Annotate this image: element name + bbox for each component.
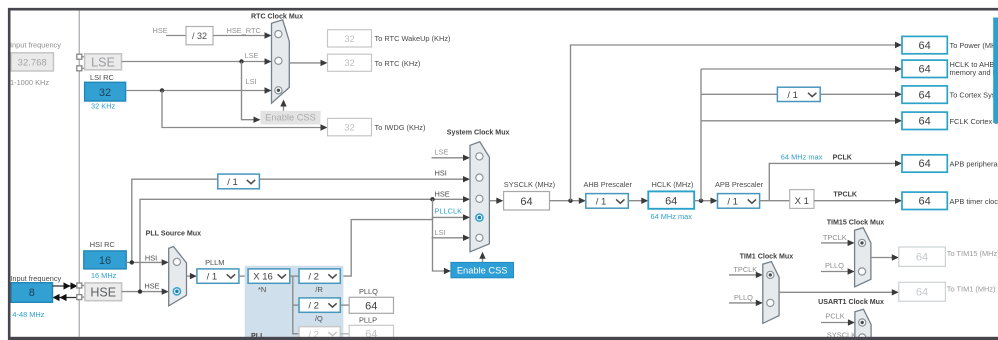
svg-text:/R: /R	[315, 285, 322, 294]
wire FCLK output	[701, 118, 902, 124]
wire LSE stub to system mux	[432, 155, 471, 161]
wire AHB to HCLK	[628, 198, 648, 204]
svg-text:PLLCLK: PLLCLK	[435, 207, 463, 216]
system clock mux shape	[470, 142, 489, 252]
sysmux radio HSI	[476, 174, 483, 181]
wire sysmux output to SYSCLK	[489, 198, 503, 204]
USART1 clock mux shape	[855, 309, 871, 340]
svg-text:PLL Source Mux: PLL Source Mux	[146, 229, 202, 237]
LSE input frequency box 32.768	[11, 53, 54, 71]
svg-text:64 MHz max: 64 MHz max	[651, 212, 693, 221]
label PLL	[251, 332, 265, 340]
wire SYSCLK branch to To Power	[571, 42, 903, 201]
svg-text:16: 16	[99, 255, 111, 267]
label To TIM15 (MHz)	[947, 249, 998, 258]
label SYSCLK (MHz)	[504, 180, 555, 189]
To IWDG box	[328, 118, 372, 135]
svg-text:System Clock Mux: System Clock Mux	[447, 129, 510, 137]
svg-text:Input frequency: Input frequency	[10, 274, 61, 283]
To TIM15 output box	[899, 247, 946, 266]
svg-text:PLLQ: PLLQ	[734, 293, 753, 302]
sysmux radio LSE	[476, 153, 483, 160]
wire LSI stub to system mux	[432, 235, 471, 241]
svg-text:/ 2: / 2	[308, 272, 319, 283]
label To RTC WakeUp (KHz)	[375, 34, 451, 43]
label PLLQ (tim15 stub)	[825, 261, 844, 270]
frame bottom edge	[8, 337, 998, 340]
wire TPCLK into TIM15 mux	[821, 240, 855, 246]
label /R	[315, 285, 322, 294]
svg-text:PLLQ: PLLQ	[359, 287, 378, 296]
PLL block background	[245, 266, 344, 340]
label PLLQ (tim1 stub)	[734, 293, 753, 302]
svg-text:PLLM: PLLM	[205, 258, 224, 267]
svg-text:LSI: LSI	[246, 77, 257, 86]
To Cortex output box	[902, 86, 947, 103]
svg-text:HSI: HSI	[145, 254, 157, 263]
label HCLK (MHz)	[652, 180, 694, 189]
label HSI RC	[90, 240, 116, 249]
title System Clock Mux	[447, 129, 510, 137]
svg-text:LSI: LSI	[435, 228, 446, 237]
wire HCLK to AHB bus output	[701, 66, 902, 72]
svg-text:To Power (MHz): To Power (MHz)	[950, 41, 998, 50]
svg-text:APB peripheral clocks (MHz): APB peripheral clocks (MHz)	[950, 160, 998, 169]
wire SYSCLK to AHB prescaler	[550, 198, 586, 204]
svg-text:64: 64	[365, 300, 377, 312]
svg-text:64: 64	[918, 89, 930, 101]
svg-text:/ 2: / 2	[308, 301, 319, 312]
HSI divider dropdown /1	[218, 174, 260, 189]
To Power output box	[902, 36, 947, 53]
scrollbar thumb right	[993, 18, 998, 124]
svg-text:Input frequency: Input frequency	[10, 41, 61, 50]
label TPCLK	[833, 190, 858, 198]
wire N output bus down to Q and P	[293, 276, 299, 334]
junction HSE to css	[430, 197, 434, 201]
label To Cortex System timer	[950, 91, 998, 100]
LSI RC box 32	[85, 82, 126, 101]
svg-text:TIM15 Clock Mux: TIM15 Clock Mux	[827, 218, 885, 226]
title TIM15 Clock Mux	[827, 218, 885, 226]
svg-text:/ 1: / 1	[596, 196, 607, 207]
To TIM1 output box	[899, 282, 946, 301]
wire PCLK riser	[769, 160, 902, 201]
svg-text:HSE: HSE	[435, 190, 450, 199]
sysmux radio HSE	[476, 195, 483, 202]
title USART1 Clock Mux	[818, 298, 884, 306]
label 64 MHz max (pclk)	[781, 152, 823, 161]
wire HSI rail vertical	[132, 176, 470, 262]
svg-text:APB timer clocks (MHz): APB timer clocks (MHz)	[950, 197, 998, 206]
RTC mux radio LSE	[275, 57, 282, 64]
wire PLLQ into TIM1 mux	[729, 300, 763, 306]
svg-text:LSE: LSE	[245, 51, 259, 60]
wire HSI RC to PLL mux	[126, 259, 169, 265]
junction HSE branch	[138, 289, 142, 293]
svg-text:TPCLK: TPCLK	[823, 233, 847, 242]
HSE input frequency box 8	[11, 283, 52, 303]
X1 multiplier box	[790, 190, 814, 209]
APB timer output box	[902, 192, 947, 209]
svg-text:APB Prescaler: APB Prescaler	[715, 180, 764, 189]
svg-text:TPCLK: TPCLK	[833, 190, 858, 198]
label 1-1000 KHz	[10, 78, 49, 87]
wire N to R divider	[290, 275, 299, 277]
label TPCLK (tim15 stub)	[823, 233, 847, 242]
wire PLLQ into TIM15 mux	[821, 268, 855, 274]
label AHB Prescaler	[584, 180, 633, 189]
PLLP value box 64 disabled	[349, 325, 393, 340]
connector square HSE top	[77, 283, 82, 288]
svg-text:memory and DMA (MHz): memory and DMA (MHz)	[950, 68, 998, 77]
wire P divider to PLLP box	[340, 333, 349, 335]
label HSI (sysmux stub)	[435, 169, 447, 178]
wire HSE to /32	[166, 35, 186, 37]
junction HSI branch	[130, 260, 134, 264]
svg-text:32: 32	[344, 123, 355, 134]
PLL P divider dropdown /2 disabled	[299, 327, 340, 340]
title TIM1 Clock Mux	[740, 253, 794, 261]
svg-text:32: 32	[344, 34, 355, 45]
svg-text:PCLK: PCLK	[833, 153, 853, 161]
HCLK value box 64	[648, 191, 694, 208]
label Input frequency (LSE)	[10, 41, 61, 50]
svg-text:TIM1 Clock Mux: TIM1 Clock Mux	[740, 253, 794, 261]
TIM1 clock mux shape	[763, 262, 779, 324]
connector square LSE top	[77, 54, 82, 59]
svg-text:64: 64	[918, 64, 930, 76]
svg-text:To TIM15 (MHz): To TIM15 (MHz)	[947, 249, 998, 258]
label LSI (sysmux stub)	[435, 228, 446, 237]
TIM1 mux radio PLLQ	[767, 299, 774, 306]
label *N	[258, 285, 266, 294]
label HSE (rtc divider input)	[153, 26, 168, 35]
PLL mux radio HSE selected	[173, 288, 180, 295]
wire TPCLK into TIM1 mux	[729, 272, 763, 278]
svg-text:HSI RC: HSI RC	[90, 240, 116, 249]
wire Q divider to PLLQ box	[340, 304, 349, 306]
To RTC WakeUp box	[328, 30, 372, 47]
wire LSI to RTC mux	[126, 87, 272, 93]
svg-text:64 MHz max: 64 MHz max	[781, 152, 823, 161]
svg-text:HCLK (MHz): HCLK (MHz)	[652, 180, 694, 189]
label PLLQ	[359, 287, 378, 296]
wire PLLM to PLL block	[239, 275, 248, 277]
label PLLM	[205, 258, 224, 267]
TIM15 clock mux shape	[855, 228, 871, 287]
APB prescaler dropdown /1	[718, 194, 760, 209]
label HSE_RTC	[227, 26, 262, 35]
Enable CSS button (rtc, disabled)	[261, 111, 321, 125]
svg-text:HSE: HSE	[90, 285, 116, 299]
TIM1 mux radio TPCLK selected	[767, 271, 774, 278]
svg-text:64: 64	[665, 196, 677, 208]
wire LSE branch to Enable CSS (rtc)	[242, 62, 261, 123]
APB peripheral output box	[902, 155, 947, 172]
wire nubs squares to HSE box	[82, 286, 85, 298]
svg-text:/ 1: / 1	[727, 196, 738, 207]
svg-text:HSE_RTC: HSE_RTC	[227, 26, 262, 35]
label 32 KHz	[91, 102, 116, 111]
wire Enable CSS up arrow into RTC mux	[280, 100, 286, 111]
junction LSI branch	[160, 88, 164, 92]
svg-text:To TIM1 (MHz): To TIM1 (MHz)	[947, 285, 996, 294]
svg-text:*N: *N	[258, 285, 266, 294]
wire HCLK to APB prescaler	[694, 198, 717, 204]
label 64 MHz max (hclk)	[651, 212, 693, 221]
svg-text:HSI: HSI	[435, 169, 447, 178]
wire HSE_RTC to RTC mux	[213, 32, 272, 38]
PLL mux radio HSI	[173, 258, 180, 265]
svg-text:To RTC (KHz): To RTC (KHz)	[375, 59, 421, 68]
svg-text:64: 64	[918, 196, 930, 208]
connector square HSE bottom	[77, 295, 82, 300]
label APB Prescaler	[715, 180, 764, 189]
svg-text:64: 64	[916, 252, 928, 264]
RTC mux radio HSE_RTC	[275, 30, 282, 37]
svg-text:SYSCLK (MHz): SYSCLK (MHz)	[504, 180, 555, 189]
junction SYSCLK branch	[568, 199, 572, 203]
junction LSE branch	[239, 59, 243, 63]
svg-text:PLLQ: PLLQ	[825, 261, 844, 270]
PLLQ value box 64	[349, 297, 393, 313]
clock source rail	[78, 11, 80, 337]
label APB timer clocks	[950, 197, 998, 206]
svg-text:PLLP: PLLP	[359, 315, 377, 324]
svg-text:LSE: LSE	[435, 148, 449, 157]
label HSE (pll mux input)	[144, 282, 159, 291]
wire TIM1 mux output to To TIM1	[779, 289, 899, 295]
svg-text:32 KHz: 32 KHz	[91, 102, 116, 111]
label APB peripheral clocks	[950, 160, 998, 169]
wire PLL mux output to PLLM	[187, 273, 197, 279]
svg-text:X 1: X 1	[795, 196, 809, 207]
connector square LSE bottom	[77, 66, 82, 71]
label HSI (pll mux input)	[145, 254, 157, 263]
RTC clock mux shape	[272, 20, 290, 103]
label To Power (MHz)	[950, 41, 998, 50]
TIM15 mux radio TPCLK selected	[858, 239, 865, 246]
svg-text:1-1000 KHz: 1-1000 KHz	[10, 78, 49, 87]
svg-text:32.768: 32.768	[18, 57, 47, 68]
wire HSE branch to Enable CSS	[433, 199, 451, 274]
wire nubs squares to LSE box	[82, 57, 85, 69]
label /Q	[315, 314, 323, 323]
label TPCLK (tim1 stub)	[733, 265, 757, 274]
junction HCLK branch	[699, 199, 703, 203]
label To IWDG (KHz)	[375, 123, 426, 132]
label Input frequency (HSE)	[10, 274, 61, 283]
HSI RC box 16	[84, 251, 126, 269]
Cortex divider dropdown /1	[777, 87, 820, 101]
label LSE (rtc mux input)	[245, 51, 259, 60]
label To TIM1 (MHz)	[947, 285, 996, 294]
wire APB to X1	[760, 200, 790, 202]
TIM15 mux radio PLLQ	[858, 268, 865, 275]
wire Enable CSS up arrow into sysmux	[479, 252, 485, 263]
svg-text:4-48 MHz: 4-48 MHz	[12, 310, 44, 319]
FCLK output box	[902, 112, 947, 129]
svg-text:To RTC WakeUp (KHz): To RTC WakeUp (KHz)	[375, 34, 451, 43]
wire rail to HSE input with double arrows	[53, 294, 77, 301]
USART1 mux radio PCLK selected	[859, 319, 866, 326]
PLL N multiplier dropdown X16	[248, 269, 290, 283]
frame top edge	[8, 8, 998, 11]
sysmux radio LSI	[476, 234, 483, 241]
svg-text:64: 64	[916, 287, 928, 299]
PLL Q divider dropdown /2	[299, 298, 340, 312]
svg-text:X 16: X 16	[253, 272, 273, 283]
svg-text:LSE: LSE	[91, 56, 115, 70]
wire TIM15 mux output	[871, 254, 899, 260]
svg-text:LSI RC: LSI RC	[90, 73, 114, 82]
Enable CSS button (active blue)	[451, 262, 514, 277]
label LSE (sysmux stub)	[435, 148, 449, 157]
wire HSE rail to system mux	[140, 196, 470, 292]
wire LSI branch to IWDG	[162, 91, 328, 131]
label LSI (rtc mux input)	[246, 77, 257, 86]
svg-text:64: 64	[918, 40, 930, 52]
wire HSE to PLL mux	[122, 288, 169, 294]
PLL R divider dropdown /2	[299, 269, 340, 283]
label 4-48 MHz	[12, 310, 44, 319]
HSE source box	[85, 283, 122, 301]
label FCLK Cortex clock	[950, 117, 998, 126]
label LSI RC	[90, 73, 114, 82]
HCLK to AHB output box	[902, 60, 947, 77]
svg-text:Enable CSS: Enable CSS	[457, 265, 508, 275]
svg-text:8: 8	[29, 287, 35, 299]
svg-text:/ 1: / 1	[227, 177, 238, 188]
PLL source mux shape	[169, 247, 187, 306]
wire RTC mux output to To RTC	[289, 60, 327, 66]
svg-text:FCLK Cortex clock (MHz): FCLK Cortex clock (MHz)	[950, 117, 998, 126]
svg-text:USART1 Clock Mux: USART1 Clock Mux	[818, 298, 884, 306]
svg-text:HSE: HSE	[153, 26, 168, 35]
To RTC box	[328, 54, 372, 71]
svg-text:HSE: HSE	[144, 282, 159, 291]
label PCLK (usart1 stub)	[825, 312, 844, 321]
SYSCLK value box 64	[504, 192, 550, 211]
RTC divider box /32	[186, 27, 213, 45]
svg-text:/ 1: / 1	[787, 90, 798, 101]
svg-text:16 MHz: 16 MHz	[91, 271, 117, 280]
label HSE (sysmux stub)	[435, 190, 450, 199]
svg-text:/ 32: / 32	[192, 31, 207, 41]
svg-text:Enable CSS: Enable CSS	[265, 113, 316, 123]
svg-text:PCLK: PCLK	[825, 312, 844, 321]
label 16 MHz	[91, 271, 117, 280]
frame left edge	[8, 8, 11, 340]
svg-text:64: 64	[918, 116, 930, 128]
svg-text:AHB Prescaler: AHB Prescaler	[584, 180, 633, 189]
svg-text:To Cortex System timer (MHz): To Cortex System timer (MHz)	[950, 91, 998, 100]
wire SYSCLK into USART1 mux	[821, 338, 849, 340]
sysmux radio PLLCLK selected	[476, 214, 483, 221]
svg-text:64: 64	[918, 158, 930, 170]
wire PLLCLK from PLL R divider	[340, 214, 470, 276]
USART1 mux radio SYSCLK	[859, 334, 866, 340]
label PCLK	[833, 153, 853, 161]
svg-text:32: 32	[344, 58, 355, 69]
PLLM dropdown /1	[197, 269, 239, 283]
svg-text:/Q: /Q	[315, 314, 323, 323]
wire TPCLK to APB timer output	[814, 198, 902, 204]
AHB prescaler dropdown /1	[586, 194, 629, 209]
label PLLCLK (sysmux stub)	[435, 207, 463, 216]
title PLL Source Mux	[146, 229, 202, 237]
svg-text:To IWDG (KHz): To IWDG (KHz)	[375, 123, 426, 132]
svg-text:TPCLK: TPCLK	[733, 265, 757, 274]
wire HCLK riser	[700, 69, 702, 201]
title RTC Clock Mux	[251, 12, 303, 20]
label SYSCLK (usart1 stub)	[827, 331, 856, 340]
LSE source box	[85, 54, 122, 70]
label PLLP	[359, 315, 377, 324]
svg-text:32: 32	[99, 87, 111, 99]
label HCLK to AHB bus	[950, 60, 998, 77]
svg-text:64: 64	[520, 196, 532, 208]
svg-text:RTC Clock Mux: RTC Clock Mux	[251, 12, 303, 20]
RTC mux radio LSI selected	[275, 87, 282, 94]
wire HSE input to rail with double arrows	[53, 282, 78, 289]
wire PCLK into USART1 mux	[821, 319, 855, 325]
svg-text:/ 1: / 1	[207, 272, 218, 283]
label To RTC (KHz)	[375, 59, 421, 68]
wire HCLK to Cortex timer output	[701, 91, 902, 97]
wire LSE to RTC mux	[122, 58, 272, 64]
